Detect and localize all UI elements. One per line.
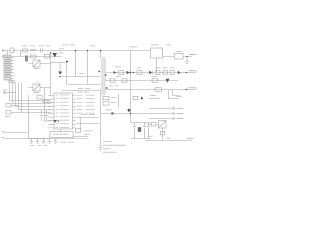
capacitor C1 [39,46,44,53]
wire secondary rail y72 [106,72,197,74]
wire primary y76 [60,76,101,78]
node dot -12 [186,89,188,91]
note text line 2 [103,144,126,147]
label row y89 [78,88,90,93]
shunt reg U3 [159,121,167,129]
label R23 [81,113,95,116]
snubber rail bottom [131,138,151,140]
wire y90 [62,90,100,92]
wire bus vertical 2 [13,83,52,104]
wire bus vertical 3 [16,83,52,107]
signal line 5VSB [149,117,184,119]
wire K1 through [29,63,51,65]
resistor R28 [138,127,141,132]
label U1 net names column 2 [86,95,95,114]
transistor Q5 [128,109,131,112]
node dot +12 [186,72,188,74]
label 0V [167,137,171,140]
wire x60 drop [59,63,61,72]
wire U1 left pins [48,96,54,128]
resistor R20 [155,88,162,91]
IC U1 inner text [56,95,70,128]
capacitor C26 [143,123,146,139]
note text line 4 [103,151,117,154]
resistor R32 [148,132,165,137]
wire primary y84 [67,63,101,85]
optocoupler box K1 [33,60,40,69]
label +5V out [189,54,197,55]
label U1 net names column 1 [77,95,83,114]
capacitor C23 [48,139,51,144]
wire x130 vertical [130,51,132,123]
wire secondary rail y89 [106,89,197,91]
capacitor C25 [133,123,136,139]
capacitor C16 [40,110,44,121]
ground sym main [98,148,102,152]
label T1 [129,46,137,49]
diode D10 [105,110,115,116]
relay RL1 [25,56,28,62]
wire dropper x87 [87,51,89,85]
capacitor C30 [185,58,189,64]
transformer T1 secondary [104,59,107,95]
node dot +5 [186,56,188,58]
diode D8 [178,71,181,74]
wire U1 right pins [73,96,76,128]
ground rail under U1 [29,138,89,140]
signal line PG [149,112,184,114]
inductor L1 [30,46,36,51]
diode D5 [114,67,124,78]
node stub A [3,90,16,94]
inductor L3 [170,68,175,75]
terminal E1 [2,131,4,132]
resistor R18 [122,79,127,82]
switch S1 [10,48,14,53]
diode D7 [149,71,153,75]
wire y123 right of U1 [76,123,99,125]
wire y136 stub [73,136,88,138]
transistor Q3 [166,79,170,83]
capacitor C21 [36,139,39,144]
node dot x75 [75,50,77,52]
resistor R17 [110,79,115,82]
optocoupler box K2 [33,84,40,93]
IC U1 [54,93,73,129]
resistor R26 [103,102,117,105]
wire T2 down [156,58,158,73]
standby transformer T2 [151,45,172,59]
label C5 [90,45,95,48]
resistor R31 [152,123,157,126]
label R9 [79,72,84,75]
snubber rail top [131,122,151,124]
label GND out [187,137,194,140]
resistor R19 [152,76,158,82]
wire bus vertical 5 [22,83,52,113]
resistor R25 [103,96,117,99]
label bottom caps [30,142,74,146]
wire +5V rail [163,56,193,58]
connector J1 [4,55,11,80]
resistor R22 [43,99,48,102]
label +12V out [189,70,197,71]
wire gate y62 [51,62,67,64]
node dot x100 [100,50,102,52]
label aux [176,95,182,98]
resistor R29 [133,96,144,100]
wire x80 drop [80,118,82,129]
resistor R15 [155,68,160,75]
resistor R16 [163,68,168,75]
output choke L2 [175,51,184,59]
bridge rectifier BR1 [50,52,64,57]
wire y117 right of U1 [76,117,99,119]
wire left long rail 1 [4,132,29,134]
note text line 3 [103,147,111,150]
capacitor C18 [76,129,93,135]
signal line PS-ON [149,107,184,109]
transformer T1 core [103,57,104,96]
wire dropper x100 [100,51,102,59]
wire y98 left [149,95,160,99]
wire dropper x75 [75,51,77,77]
wire bus vertical 4 [19,83,52,110]
terminal AC N [2,56,12,58]
diode D4 [106,86,119,89]
wire lower AC rail [12,56,62,58]
transformer dot marks [98,71,106,76]
wire rail link x20 [20,51,22,57]
wire U3 links [149,125,163,141]
node dot x130 [130,72,132,115]
terminal E2 [2,137,4,138]
resistor R2 [6,104,19,108]
bottom rail GND [145,140,192,142]
wire J1 to rail [7,51,9,56]
wire x168 vertical [169,90,179,99]
fuse F1 [22,46,28,53]
capacitor C2 [45,46,51,59]
terminal AC L [2,50,10,52]
capacitor C20 [30,139,33,144]
wire bus vertical 1 [10,83,52,101]
node bus squares [9,81,14,83]
wire x44 drop [45,88,52,122]
wire left long rail 2 [4,138,50,140]
capacitor C17 [45,110,49,121]
transistor Q2 [66,61,68,63]
wire K2 through [29,87,51,89]
node dot x87 [87,50,89,52]
wire x100 vertical [100,90,102,148]
resistor R14 [137,68,143,75]
wire top AC rail [12,50,151,52]
capacitor C27 [147,123,150,139]
transistor Q1 [58,72,62,78]
wire main vertical x50 [50,54,52,96]
resistor R1 [31,55,37,58]
wire x172 vertical [173,90,181,96]
label R4 [59,45,75,50]
note text line 1 [103,140,112,143]
wire x118 vertical [118,94,120,108]
wire U1 to U2 [60,129,62,132]
transformer T1 primary [100,59,103,95]
comparator IC U2 [50,132,73,138]
wire left vertical x28 [28,95,30,139]
wire y113 [101,113,149,115]
wire J1 pin stubs [11,58,14,79]
label -12V out [189,87,197,88]
resistor R21 [37,96,42,99]
node dot y72 a [133,72,135,74]
resistor R3 [5,111,22,117]
transistor Q4 [54,120,60,123]
diode D6 [127,71,131,75]
capacitor C22 [42,139,45,144]
ground sym A [54,139,57,144]
wire secondary mid y80 [106,80,179,82]
